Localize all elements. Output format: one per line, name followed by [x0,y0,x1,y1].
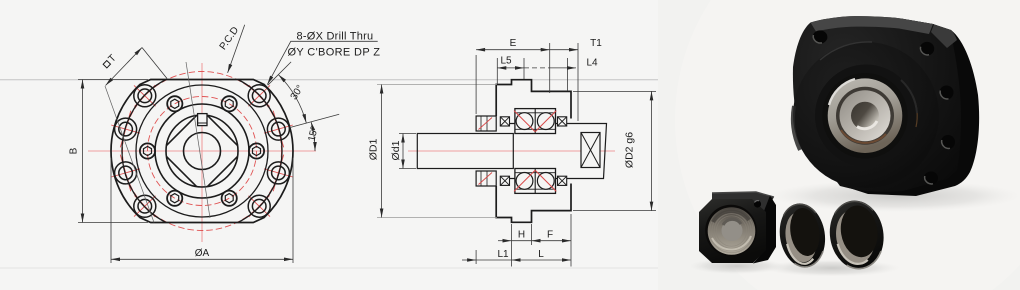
svg-text:H: H [518,230,525,241]
svg-text:L4: L4 [586,58,598,69]
svg-text:F: F [547,230,553,241]
svg-text:T1: T1 [590,38,602,49]
svg-text:8-ØX Drill Thru: 8-ØX Drill Thru [297,31,374,43]
svg-text:Ød1: Ød1 [390,140,402,160]
svg-text:ØD2 g6: ØD2 g6 [624,132,636,168]
svg-text:L5: L5 [500,56,512,67]
svg-text:E: E [510,38,517,49]
svg-text:B: B [69,147,80,154]
svg-text:ØY C'BORE DP Z: ØY C'BORE DP Z [288,47,381,59]
svg-text:ØD1: ØD1 [368,139,380,161]
svg-text:L1: L1 [497,249,509,260]
svg-text:L: L [538,249,544,260]
svg-text:ØA: ØA [195,248,210,259]
